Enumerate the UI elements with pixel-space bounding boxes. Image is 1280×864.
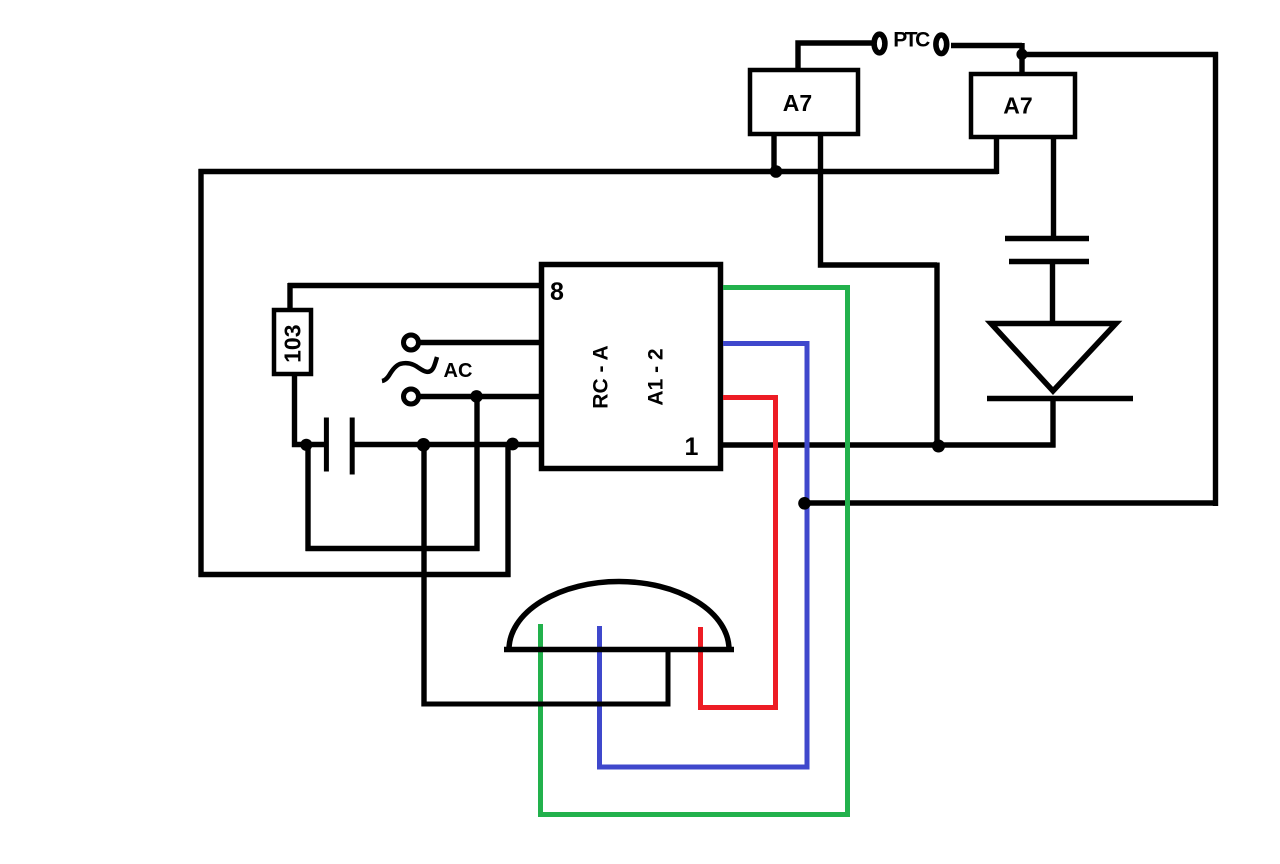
node: junction left of cap xyxy=(300,439,312,451)
wire: left A7 left pin xyxy=(771,134,776,174)
wire: outer left loop bottom horizontal xyxy=(199,572,511,577)
AC sine squiggle xyxy=(382,357,437,381)
PTC terminal right oval xyxy=(936,35,947,54)
wire: vertical x425 from pin1 row down xyxy=(421,444,426,707)
PTC terminal left oval xyxy=(874,34,885,53)
svg-text:A1 - 2: A1 - 2 xyxy=(645,348,668,405)
wire: green motor lead xyxy=(541,288,848,815)
module A7 right box xyxy=(971,74,1075,137)
diode D1 xyxy=(987,324,1133,399)
svg-text:8: 8 xyxy=(550,278,564,306)
motor M1 dome xyxy=(509,582,729,650)
wire: AC bottom terminal to IC xyxy=(421,394,542,399)
capacitor C1 (top right) xyxy=(1005,239,1089,262)
node: junction x937 on pin1 row xyxy=(932,440,945,453)
wire: red motor lead xyxy=(701,398,776,708)
wire: right PTC to top-right junction xyxy=(951,43,1022,48)
node: junction AC bottom xyxy=(470,390,483,403)
wire: right edge vertical xyxy=(1213,52,1218,506)
wire: motor base down and left to x425 xyxy=(422,650,669,705)
wire: junction down into right A7 xyxy=(1019,43,1024,76)
wire: diode cathode down to pin1 row xyxy=(1050,398,1055,448)
svg-text:A7: A7 xyxy=(783,90,812,116)
wire: vertical x937 down to pin1 row xyxy=(934,263,939,447)
svg-text:103: 103 xyxy=(280,325,306,363)
AC source terminal top xyxy=(404,335,419,350)
svg-text:A7: A7 xyxy=(1003,93,1032,119)
wire: vertical x508 up to pin1 row xyxy=(505,444,510,577)
resistor R1 box xyxy=(274,310,311,374)
wire: pin1 row left side (cap to IC) xyxy=(352,442,541,447)
node: junction y503 at blue wire xyxy=(798,497,811,510)
wire: blue motor lead xyxy=(600,344,808,768)
node: junction left A7 pin / top rail xyxy=(770,165,783,178)
wire: pin 8 net horizontal xyxy=(288,283,541,288)
wire: left A7 top pin to PTC xyxy=(798,43,872,72)
capacitor C2 (battery-like, left) xyxy=(326,418,352,475)
wire: AC top terminal to IC xyxy=(421,340,542,345)
svg-text:1: 1 xyxy=(685,433,699,461)
module A7 left box xyxy=(750,70,858,134)
wire: pin 8 corner down to resistor xyxy=(287,283,292,312)
wire: right A7 right pin down to capacitor xyxy=(1051,137,1056,239)
node: junction x513 on pin1 row xyxy=(506,438,519,451)
node: junction top right xyxy=(1016,49,1027,60)
wire: outer left loop vertical xyxy=(198,169,203,577)
wire: vertical x308 from pin1 row xyxy=(305,444,310,551)
wire: right A7 left pin xyxy=(994,137,999,174)
motor M1 base line xyxy=(504,647,734,653)
wire: pin1 row right side (IC to diode) xyxy=(720,442,1056,447)
node: junction x424 on pin1 row xyxy=(417,438,431,452)
wire: AC bottom junction down xyxy=(474,397,479,552)
wire: resistor bottom to pin1 row xyxy=(295,374,328,445)
wire: horizontal y548 xyxy=(306,546,480,551)
svg-text:AC: AC xyxy=(444,360,473,382)
wire: left A7 right pin down, over to x937 xyxy=(821,134,938,265)
svg-text:RC - A: RC - A xyxy=(590,345,613,408)
wire: horizontal y504 from right edge to blue wire xyxy=(804,500,1218,505)
IC U1 box RC-A / A1-2 xyxy=(542,265,721,469)
svg-text:PTC: PTC xyxy=(893,28,930,51)
wire: outer left loop horizontal (top) xyxy=(199,169,999,174)
wire: top-right horizontal to right edge xyxy=(1020,52,1219,57)
wire: capacitor to diode xyxy=(1050,261,1055,326)
AC source terminal bottom xyxy=(404,389,419,404)
